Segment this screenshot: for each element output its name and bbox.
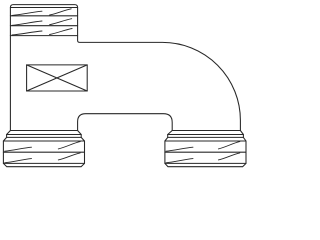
bottom-left nut band line [3, 151, 84, 153]
bottom-right nut hatch band2 left [166, 159, 193, 163]
top nut band line 1 [10, 15, 77, 17]
crossed box diagonal 2 [27, 65, 88, 91]
bottom-right port shoulder ring 1 [168, 131, 244, 135]
bottom-left nut bottom chamfer line [3, 162, 84, 164]
bottom-right nut hatch band2 right [218, 153, 239, 160]
bottom-left nut hatch band1 left [5, 147, 32, 151]
top nut chamfer line [10, 7, 77, 9]
top nut knurl hatch band3 right [50, 29, 73, 35]
top nut knurl hatch band2 left [12, 21, 42, 25]
bottom-left nut hatch band2 right [58, 153, 80, 160]
crossed box diagonal 1 [27, 65, 88, 91]
top nut knurl hatch band1 left [12, 11, 42, 15]
valve insert symbol (crossed box) [27, 65, 88, 91]
bottom-right port shoulder ring 2 [168, 135, 244, 138]
bottom-left nut hatch band2 left [5, 159, 32, 163]
top nut knurl hatch band3 left [12, 31, 42, 35]
top nut knurl hatch band2 right [50, 19, 72, 25]
top nut knurl hatch band1 right [50, 9, 72, 15]
valve body left edge [9, 36, 11, 131]
bottom-right nut hatch band1 right [218, 142, 239, 149]
bottom-right nut hatch band1 left [166, 147, 193, 151]
bottom-right nut band line [165, 151, 246, 153]
bottom-left nut hatch band1 right [58, 142, 80, 149]
bottom-right nut outline [165, 137, 246, 166]
bottom-right nut chamfer line [165, 140, 246, 142]
bottom-left nut chamfer line [3, 140, 84, 142]
bottom-right nut bottom chamfer line [165, 162, 246, 164]
bottom-left port shoulder ring 1 [7, 131, 82, 135]
bottom-left nut outline [3, 137, 84, 166]
valve body inner contour between bottom ports [78, 114, 173, 131]
valve body top/right outer contour with elbow arc [78, 36, 241, 131]
bottom-left port shoulder ring 2 [7, 135, 82, 138]
top union nut outline [10, 5, 77, 36]
top nut band line 2 [10, 25, 77, 27]
